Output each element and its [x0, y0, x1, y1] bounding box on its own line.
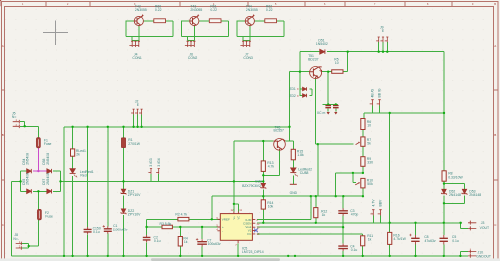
- svg-text:1.8k: 1.8k: [297, 153, 304, 157]
- svg-text:5k: 5k: [367, 142, 371, 146]
- svg-text:BC557: BC557: [274, 128, 284, 132]
- svg-text:12: 12: [231, 208, 234, 212]
- svg-text:-: -: [222, 229, 223, 233]
- svg-text:0.22: 0.22: [210, 8, 217, 12]
- svg-text:J3: J3: [481, 221, 485, 225]
- svg-text:Red: Red: [80, 174, 86, 178]
- svg-text:X: X: [297, 94, 299, 98]
- svg-text:0.22: 0.22: [155, 8, 162, 12]
- svg-text:A: A: [494, 44, 496, 48]
- svg-text:4.7V: 4.7V: [371, 199, 375, 207]
- svg-text:A: A: [2, 44, 4, 48]
- svg-text:4.7k/1W: 4.7k/1W: [393, 237, 406, 241]
- svg-text:BD237: BD237: [308, 58, 318, 62]
- svg-text:4.7k: 4.7k: [268, 165, 275, 169]
- svg-text:3 /G4: 3 /G4: [157, 158, 161, 166]
- svg-text:0.1u: 0.1u: [351, 248, 358, 252]
- svg-text:330: 330: [367, 161, 373, 165]
- svg-text:R2 4.7k: R2 4.7k: [175, 213, 187, 217]
- svg-text:1N5402: 1N5402: [316, 42, 328, 46]
- svg-text:0.1u: 0.1u: [154, 239, 161, 243]
- svg-text:2N3055: 2N3055: [135, 8, 147, 12]
- svg-text:B: B: [2, 133, 4, 137]
- svg-text:3 /G3: 3 /G3: [149, 158, 153, 166]
- svg-text:0.1u: 0.1u: [452, 239, 459, 243]
- svg-text:2N5408: 2N5408: [26, 173, 30, 185]
- svg-text:10: 10: [335, 61, 339, 65]
- svg-text:GND: GND: [290, 191, 298, 195]
- svg-text:CON2: CON2: [188, 56, 198, 60]
- svg-text:2N5408: 2N5408: [46, 173, 50, 185]
- svg-text:13: 13: [256, 222, 259, 226]
- svg-text:50k: 50k: [367, 182, 373, 186]
- svg-text:LM723_DIP14: LM723_DIP14: [242, 250, 264, 254]
- svg-text:1k: 1k: [184, 240, 188, 244]
- svg-text:ZD2: ZD2: [289, 94, 296, 98]
- svg-text:R3 5.6k: R3 5.6k: [160, 222, 172, 226]
- svg-text:CON1: CON1: [132, 56, 142, 60]
- svg-text:V+: V+: [232, 216, 236, 220]
- svg-text:11000u63v: 11000u63v: [113, 228, 128, 232]
- svg-text:CON3: CON3: [243, 56, 253, 60]
- svg-text:Fuse: Fuse: [44, 142, 52, 146]
- svg-text:0.1u: 0.1u: [93, 230, 100, 234]
- svg-text:2k: 2k: [76, 153, 80, 157]
- svg-text:0.33/10W: 0.33/10W: [448, 175, 463, 179]
- svg-text:2N4148: 2N4148: [449, 193, 461, 197]
- svg-text:GNDOUT: GNDOUT: [476, 254, 491, 258]
- svg-text:4B /G: 4B /G: [371, 88, 375, 97]
- svg-text:10k: 10k: [268, 205, 274, 209]
- svg-text:ZPY10V: ZPY10V: [128, 212, 141, 216]
- svg-text:470p: 470p: [351, 213, 359, 217]
- svg-text:100u63v: 100u63v: [208, 242, 221, 246]
- svg-text:13: 13: [256, 232, 259, 236]
- svg-text:BBV: BBV: [379, 199, 383, 207]
- svg-text:2N3055: 2N3055: [190, 8, 202, 12]
- svg-text:10: 10: [367, 124, 371, 128]
- svg-text:47u63v: 47u63v: [425, 239, 436, 243]
- svg-text:XC m: XC m: [317, 111, 326, 115]
- svg-text:BZX79C6V2: BZX79C6V2: [242, 184, 261, 188]
- svg-text:Fuse: Fuse: [45, 214, 53, 218]
- svg-text:B: B: [494, 2, 496, 6]
- svg-text:X: X: [297, 87, 299, 91]
- svg-text:ZD1: ZD1: [289, 87, 296, 91]
- svg-text:1k: 1k: [368, 237, 372, 241]
- svg-text:2N3055: 2N3055: [246, 8, 258, 12]
- svg-text:0.22: 0.22: [266, 8, 273, 12]
- svg-text:2N5408: 2N5408: [46, 153, 50, 165]
- svg-text:BB /G: BB /G: [378, 88, 382, 97]
- svg-text:CU88: CU88: [300, 171, 309, 175]
- svg-text:DZ3: DZ3: [255, 179, 262, 183]
- svg-text:2N5408: 2N5408: [26, 153, 30, 165]
- svg-text:VREF: VREF: [222, 218, 230, 222]
- svg-text:VOUT: VOUT: [480, 226, 489, 230]
- svg-text:1k: 1k: [322, 213, 326, 217]
- svg-text:2N4148: 2N4148: [469, 193, 481, 197]
- svg-text:VC: VC: [236, 216, 240, 220]
- svg-text:ZPY10V: ZPY10V: [128, 193, 141, 197]
- svg-text:270/1W: 270/1W: [128, 142, 140, 146]
- svg-text:B: B: [494, 133, 496, 137]
